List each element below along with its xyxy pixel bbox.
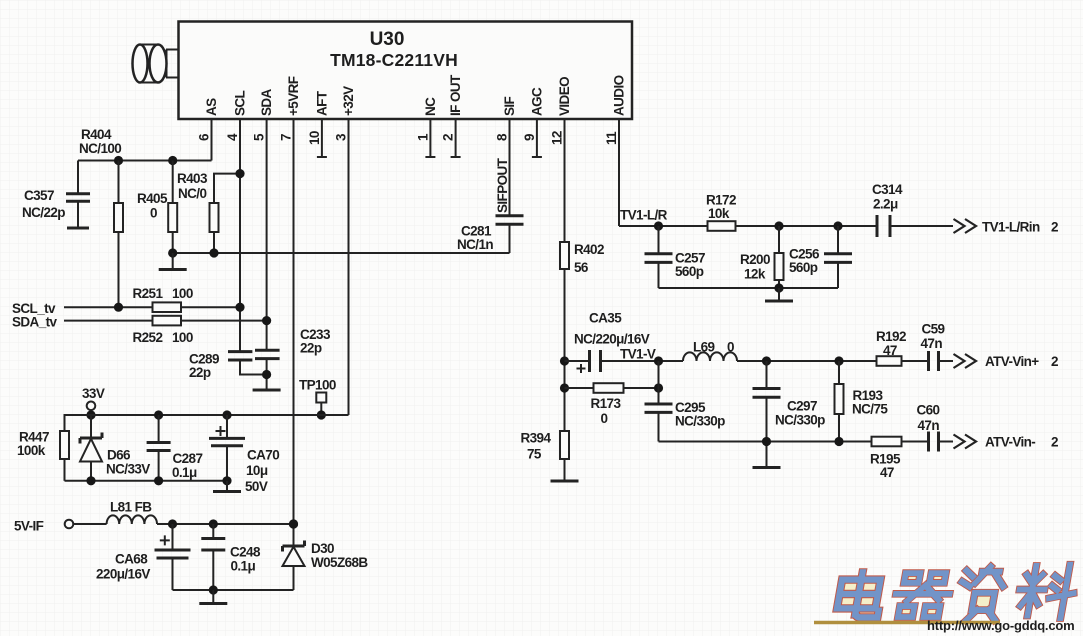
resistor R405 (137, 156, 177, 253)
svg-text:NC/330p: NC/330p (675, 414, 725, 429)
svg-text:2: 2 (1051, 354, 1058, 369)
wire pin8 SIF drop (509, 119, 511, 215)
electrolytic capacitor CA35 (560, 311, 683, 374)
svg-text:0: 0 (150, 206, 157, 221)
svg-text:9: 9 (522, 134, 537, 141)
wire 33V bottom rail (65, 480, 228, 482)
output arrow ATV-Vin- (954, 435, 977, 449)
wire pin7 +5VRF drop (293, 119, 295, 524)
svg-text:TP100: TP100 (299, 378, 336, 393)
svg-text:R200: R200 (740, 252, 770, 267)
capacitor C287 (147, 410, 203, 485)
resistor R192 (876, 329, 928, 366)
svg-text:12k: 12k (744, 267, 766, 282)
wire TV1-V node down (658, 361, 660, 404)
svg-text:R402: R402 (574, 242, 604, 257)
zener diode D30 (283, 519, 369, 590)
svg-text:2: 2 (1051, 220, 1058, 235)
capacitor C59 (921, 322, 954, 372)
svg-text:SDA: SDA (259, 88, 274, 116)
svg-text:AUDIO: AUDIO (612, 75, 627, 116)
capacitor C256 (789, 226, 852, 288)
wire SDA_tv (64, 320, 267, 322)
wire SCL_tv (64, 306, 240, 308)
svg-text:C357: C357 (24, 188, 54, 203)
svg-text:NC/22p: NC/22p (22, 205, 65, 220)
svg-text:560p: 560p (789, 260, 818, 275)
svg-text:22p: 22p (300, 341, 322, 356)
svg-text:NC: NC (423, 97, 438, 116)
wire pin6 drop (211, 119, 213, 161)
node C297 top (762, 356, 771, 365)
svg-text:http://www.go-gddq.com: http://www.go-gddq.com (927, 618, 1074, 633)
svg-text:C248: C248 (230, 545, 261, 560)
node R404 to SCL (114, 303, 123, 312)
wire ATV-Vin- row (659, 441, 872, 443)
svg-text:CA68: CA68 (115, 552, 148, 567)
svg-text:1: 1 (416, 133, 431, 141)
svg-text:220μ/16V: 220μ/16V (96, 567, 150, 582)
svg-text:2.2μ: 2.2μ (873, 197, 898, 212)
wire AUDIO line (619, 225, 708, 227)
ground under C233 (253, 389, 281, 392)
svg-text:2: 2 (1051, 435, 1058, 450)
svg-text:3: 3 (334, 133, 349, 141)
svg-text:12: 12 (550, 131, 565, 145)
wire 5V bottom rail (173, 589, 294, 591)
capacitor C257 (645, 226, 705, 288)
svg-text:4: 4 (225, 133, 240, 141)
wire 33V rail (65, 415, 349, 431)
svg-text:R251: R251 (133, 286, 164, 301)
svg-text:D66: D66 (107, 448, 131, 463)
pin 2 open stub (451, 119, 461, 157)
wire pin12 VIDEO drop (564, 119, 566, 242)
svg-text:47n: 47n (918, 418, 940, 433)
wire pin4 SCL drop (239, 119, 241, 352)
svg-text:AS: AS (204, 98, 219, 116)
svg-text:11: 11 (604, 131, 619, 145)
svg-text:C59: C59 (922, 322, 945, 337)
svg-text:10: 10 (307, 131, 322, 145)
node R200 top (774, 221, 783, 230)
svg-text:0.1μ: 0.1μ (231, 559, 256, 574)
svg-text:C314: C314 (872, 182, 903, 197)
pin 9 open stub (532, 119, 542, 157)
ground under R405 (159, 253, 187, 270)
svg-text:100: 100 (172, 286, 193, 301)
svg-text:R173: R173 (591, 396, 622, 411)
wire TV1-V row (737, 360, 877, 362)
node TV1-V (654, 356, 663, 365)
svg-text:ATV-Vin-: ATV-Vin- (985, 435, 1035, 450)
resistor R402 (560, 242, 604, 431)
resistor R403 (177, 169, 245, 253)
electrolytic capacitor CA68 (96, 519, 191, 590)
svg-text:56: 56 (574, 260, 589, 275)
capacitor C281 (457, 216, 524, 253)
svg-text:6: 6 (197, 133, 212, 141)
svg-text:C297: C297 (787, 399, 817, 414)
svg-text:L81 FB: L81 FB (110, 500, 152, 515)
watermark underline (814, 621, 1000, 625)
svg-text:AGC: AGC (530, 87, 545, 116)
resistor R394 (521, 431, 570, 462)
svg-text:R394: R394 (521, 431, 552, 446)
svg-text:0: 0 (727, 340, 734, 355)
svg-text:CA35: CA35 (589, 311, 622, 326)
resistor R447 (17, 430, 69, 481)
svg-text:NC/100: NC/100 (79, 141, 121, 156)
svg-text:W05Z68B: W05Z68B (311, 555, 368, 570)
capacitor C314 (872, 182, 953, 237)
svg-text:VIDEO: VIDEO (557, 77, 572, 116)
test point TP100 (299, 378, 336, 420)
svg-text:NC/33V: NC/33V (106, 462, 150, 477)
node 5V-IF terminal (14, 519, 107, 534)
svg-text:R404: R404 (81, 127, 112, 142)
ground under C297 (753, 466, 781, 469)
op-amp U1 : IC U30 TM18-C2211VH body (179, 22, 633, 120)
svg-text:AFT: AFT (315, 90, 330, 116)
svg-text:NC/330p: NC/330p (775, 413, 825, 428)
svg-text:R252: R252 (133, 330, 163, 345)
capacitor C289 (189, 352, 267, 381)
svg-text:2: 2 (441, 134, 456, 141)
svg-text:SIF: SIF (502, 96, 517, 116)
svg-text:100: 100 (172, 330, 193, 345)
svg-text:10μ: 10μ (246, 463, 268, 478)
svg-text:CA70: CA70 (247, 448, 279, 463)
svg-text:5V-IF: 5V-IF (14, 519, 44, 534)
svg-text:R403: R403 (177, 171, 208, 186)
svg-text:NC/75: NC/75 (852, 402, 888, 417)
resistor R173 (565, 383, 664, 426)
wire pin5 SDA drop (266, 119, 268, 350)
wire SIF decoupling bus (173, 252, 510, 254)
ground under CA70 (213, 481, 241, 492)
svg-text:10k: 10k (708, 206, 730, 221)
capacitor C295 (645, 400, 726, 442)
node R193 top (834, 356, 843, 365)
svg-text:560p: 560p (675, 264, 704, 279)
svg-text:33V: 33V (82, 386, 105, 401)
node junction R403 bottom (209, 248, 218, 257)
svg-text:47n: 47n (921, 336, 943, 351)
output arrow ATV-Vin+ (954, 354, 977, 368)
wire C257/C256 bottom (659, 287, 839, 289)
zener diode D66 (80, 415, 150, 485)
electrolytic capacitor CA70 (209, 410, 279, 494)
inductor L81 (107, 500, 157, 525)
svg-text:ATV-Vin+: ATV-Vin+ (985, 354, 1039, 369)
svg-text:R192: R192 (876, 329, 906, 344)
wire 5V rail (157, 523, 294, 525)
node C256 top (833, 221, 842, 230)
svg-text:+32V: +32V (341, 86, 356, 116)
wire pin3 +32V drop (348, 119, 350, 415)
output arrow TV1-L/Rin (954, 219, 977, 233)
svg-text:L69: L69 (693, 340, 715, 355)
inductor L69 (683, 340, 737, 362)
svg-text:R405: R405 (137, 191, 168, 206)
node R173 left (560, 383, 569, 392)
ground under C248 (199, 585, 227, 603)
svg-text:8: 8 (495, 133, 510, 141)
svg-text:22p: 22p (189, 365, 211, 380)
svg-text:SDA_tv: SDA_tv (12, 315, 58, 330)
svg-text:D30: D30 (311, 541, 334, 556)
ground under R200 (765, 288, 793, 301)
svg-text:SCL: SCL (233, 90, 248, 116)
watermark logo 电器资料 (835, 565, 1078, 620)
wire AS bus to C357 (78, 160, 212, 162)
svg-text:+5VRF: +5VRF (286, 76, 301, 116)
RF tuner input connector (133, 45, 179, 83)
wire pin11 AUDIO drop and turn (618, 119, 620, 226)
resistor R404 (79, 127, 123, 307)
svg-text:IF OUT: IF OUT (448, 74, 463, 116)
svg-text:C60: C60 (917, 403, 940, 418)
capacitor C248 (201, 519, 261, 590)
ground under R394 (551, 459, 579, 481)
svg-text:7: 7 (279, 134, 294, 141)
resistor R200 (740, 226, 784, 293)
svg-text:TV1-V: TV1-V (620, 347, 656, 362)
node junction R405 bottom (168, 248, 177, 257)
node SDA pin5 (262, 316, 271, 325)
capacitor C357 (22, 161, 90, 229)
resistor R172 (706, 193, 877, 231)
svg-text:C287: C287 (173, 451, 203, 466)
svg-text:NC/220μ/16V: NC/220μ/16V (574, 332, 650, 347)
svg-text:TV1-L/Rin: TV1-L/Rin (982, 220, 1040, 235)
svg-text:50V: 50V (245, 479, 268, 494)
svg-text:TV1-L/R: TV1-L/R (620, 208, 668, 223)
svg-text:47: 47 (883, 343, 897, 358)
svg-text:0: 0 (601, 411, 608, 426)
capacitor C297 (753, 361, 826, 466)
resistor R251 (133, 286, 193, 312)
svg-text:SIFPOUT: SIFPOUT (495, 157, 510, 213)
svg-text:0.1μ: 0.1μ (172, 465, 197, 480)
capacitor C233 (255, 327, 331, 389)
node 33V supply terminal (82, 386, 105, 420)
resistor R193 (834, 361, 888, 446)
svg-text:47: 47 (880, 465, 894, 480)
capacitor C60 (917, 403, 954, 452)
svg-text:5: 5 (252, 133, 267, 141)
svg-text:NC/1n: NC/1n (457, 237, 493, 252)
pin 10 open stub (317, 119, 327, 157)
resistor R195 (870, 437, 928, 480)
pin 1 open stub (425, 119, 435, 157)
node pin7 to 5V rail (289, 519, 298, 528)
svg-text:NC/0: NC/0 (178, 186, 206, 201)
svg-text:100k: 100k (17, 443, 46, 458)
svg-text:TM18-C2211VH: TM18-C2211VH (330, 50, 458, 70)
node TV1-L/R (654, 221, 663, 230)
svg-text:U30: U30 (370, 29, 405, 50)
svg-text:75: 75 (527, 447, 542, 462)
resistor R252 (133, 316, 193, 345)
node SCL pin4 (235, 303, 244, 312)
